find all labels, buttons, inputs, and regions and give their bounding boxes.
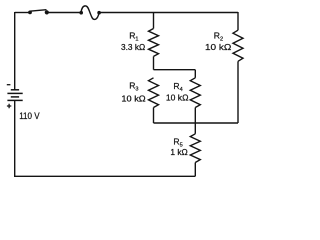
wire: left vertical from battery down to bottom rail [14,100,16,176]
resistor R1 zigzag [149,29,159,57]
wire: left vertical from top rail down to battery [14,12,16,90]
wire: top rail between switch and fuse [47,12,81,14]
svg-text:10 kΩ: 10 kΩ [205,42,232,52]
wire: top rail from fuse to right corner [99,12,238,14]
wire: R4 top stub [194,70,196,78]
resistor R5 zigzag [190,134,200,163]
wire: right vertical below R2 to bottom node bar [237,61,239,123]
svg-text:110 V: 110 V [19,111,40,122]
fuse terminal dot left [79,11,83,15]
svg-text:10 kΩ: 10 kΩ [166,93,189,103]
wire: right vertical stub above R2 [237,12,239,30]
switch contact dot right [45,10,49,14]
fuse element squiggle [81,6,99,20]
battery plus sign [7,104,11,108]
svg-text:10 kΩ: 10 kΩ [121,93,146,103]
wire: top rail left segment [15,12,30,14]
switch contact dot left [28,11,32,15]
svg-text:R2: R2 [214,31,223,43]
battery plate short [11,96,19,98]
resistor R3 zigzag [149,78,159,108]
fuse terminal dot right [97,11,101,15]
battery plate short (top, negative) [11,89,19,91]
svg-text:R4: R4 [173,81,182,93]
wire: R5 top stub [194,123,196,134]
svg-text:R1: R1 [129,31,138,43]
wire: R3 bottom stub [153,108,155,124]
wire: middle node bar between R3 and R4 tops [154,69,196,71]
wire: R1 bottom to middle node bar [153,56,155,69]
wire: bottom rail [14,175,195,177]
wire: R4 bottom stub [194,108,196,124]
resistor R2 zigzag [233,30,243,61]
svg-text:1 kΩ: 1 kΩ [170,147,188,157]
switch blade [30,10,47,12]
battery plate long (bottom, positive) [7,99,22,101]
battery plate long [7,92,22,94]
resistor R4 zigzag [190,78,200,108]
svg-text:R3: R3 [129,81,138,93]
wire: R5 bottom stub [194,163,196,177]
wire: branch from top rail down to R1 [153,13,155,29]
svg-text:3.3 kΩ: 3.3 kΩ [121,42,146,52]
battery minus sign [7,84,11,86]
wire: bottom node bar (R3/R4 bottoms to R2) [154,122,239,124]
